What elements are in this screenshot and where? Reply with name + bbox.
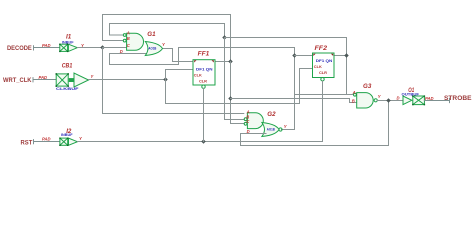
inbuf I2 (59, 138, 77, 147)
node junction I1.Y (100, 45, 105, 50)
inbuf I1 (59, 44, 77, 53)
svg-text:PAD: PAD (39, 75, 48, 80)
node STROBE port label (444, 95, 472, 102)
node junction clock (163, 77, 168, 82)
svg-text:Y: Y (378, 94, 382, 99)
wire DECODE to I1 (34, 47, 60, 49)
wire RST up to FF2.CLR (322, 81, 324, 142)
wire G3 feedback to G2.D (241, 101, 389, 146)
svg-text:CLK: CLK (314, 64, 322, 69)
wire FF1.Q to junction (215, 61, 231, 63)
svg-text:CLR: CLR (199, 79, 207, 84)
svg-text:CLR: CLR (319, 70, 327, 75)
wire G1.Y to FF1.D (163, 49, 194, 62)
node WRT_CLK port label (3, 77, 33, 84)
node junction FF2.Q (344, 53, 349, 58)
clkbuf CB1 (56, 73, 89, 87)
wire I1.Y to junction (77, 47, 102, 49)
svg-text:G2: G2 (267, 111, 276, 118)
svg-text:CLKBUF: CLKBUF (56, 87, 79, 91)
wire FF2.Q row y38 to right (225, 38, 347, 95)
svg-text:FF2: FF2 (315, 45, 328, 52)
node junction FF2.Q feedback (222, 35, 227, 40)
and-or gate G2 (244, 113, 282, 137)
svg-text:D: D (120, 49, 123, 54)
svg-text:AO1B: AO1B (148, 47, 156, 51)
wire outer feedback: G1.B from FF1.Q via top (103, 15, 231, 62)
svg-text:PAD: PAD (42, 137, 51, 142)
wire clock to FF1.CLK (166, 70, 194, 80)
wire junction to FF2.D (295, 55, 313, 57)
wire G1.D stair from G2.Y net (110, 48, 295, 65)
outbuf O1 (403, 95, 425, 105)
dff FF1 (193, 60, 215, 89)
svg-text:B: B (352, 99, 355, 104)
svg-text:CB1: CB1 (62, 63, 73, 70)
wire G2.Y output to riser (282, 129, 295, 131)
svg-text:A: A (352, 90, 356, 95)
wire FF2.Q pin to junction (334, 55, 347, 57)
dff FF2 (313, 53, 335, 81)
svg-text:FF1: FF1 (198, 50, 210, 57)
wire junction to G1.C (103, 47, 127, 49)
and-or gate G1 (123, 33, 162, 55)
svg-text:RST: RST (21, 139, 33, 146)
node RST port label (21, 139, 34, 146)
nand gate G3 (354, 93, 378, 108)
wire G3.Y to O1 (377, 100, 403, 102)
svg-text:PAD: PAD (42, 43, 51, 48)
svg-text:OUTBUF: OUTBUF (402, 93, 420, 97)
wire FF1.Q down to G2.C (231, 62, 244, 124)
wire G2.Y riser (294, 48, 296, 130)
svg-text:Y: Y (91, 74, 95, 79)
wire O1 to STROBE (424, 100, 449, 102)
svg-text:INBUF: INBUF (62, 40, 74, 44)
node junction FF2.D (292, 53, 297, 58)
wire FF1.Q row to G3.B (231, 99, 357, 103)
svg-text:A: A (126, 30, 130, 35)
svg-text:G1: G1 (147, 31, 156, 38)
wire WRT_CLK to CB1 (33, 79, 56, 81)
wire RST to I2 (34, 141, 60, 143)
svg-text:Y: Y (162, 42, 166, 47)
svg-text:AO1B: AO1B (267, 128, 275, 132)
wire clock down and right to FF2.CLK (166, 69, 313, 104)
wire inner feedback: G1.A from FF2.Q (110, 24, 225, 38)
node junction G3.Y (386, 98, 391, 103)
svg-text:B: B (127, 36, 130, 41)
wire I2.Y reset net (77, 141, 322, 143)
svg-text:CLK: CLK (194, 73, 202, 78)
svg-text:DECODE: DECODE (7, 45, 32, 52)
svg-text:WRT_CLK: WRT_CLK (3, 77, 32, 84)
wire I1 net down to G2.A row (103, 48, 244, 114)
node junction RST net (201, 139, 206, 144)
wire RST up to FF1.CLR (203, 89, 205, 142)
svg-text:INBUF: INBUF (61, 133, 73, 137)
svg-text:Y: Y (284, 124, 288, 129)
svg-text:STROBE: STROBE (444, 95, 472, 102)
svg-text:Y: Y (79, 136, 83, 141)
svg-text:DF1 QN: DF1 QN (316, 59, 333, 63)
svg-text:G3: G3 (363, 83, 372, 90)
node junction FF1.Q (228, 59, 233, 64)
wire CB1.Y clock to junction (89, 79, 166, 81)
node DECODE port label (7, 45, 34, 52)
svg-text:DF1 QN: DF1 QN (196, 68, 213, 72)
svg-text:D: D (397, 96, 400, 101)
node junction FF1.Q row to G3 (228, 96, 233, 101)
wire FF2.Q net down to G2.B (225, 38, 244, 120)
wire G2.Y net to G3.A (295, 94, 354, 96)
